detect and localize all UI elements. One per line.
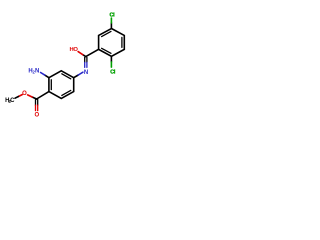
ring inner double bond left edge	[50, 80, 52, 90]
ring inner double bond top-right edge	[62, 74, 71, 79]
svg-text:C: C	[10, 98, 15, 104]
ring inner double bond bottom-left edge	[102, 48, 111, 53]
bond C to dichlorophenyl ring	[86, 49, 99, 56]
ring inner double bond top-left edge	[102, 31, 111, 36]
ring inner double bond bottom-right edge	[62, 90, 71, 95]
C=O double bond (red halves)	[35, 105, 37, 111]
C=O double bond (black halves)	[35, 100, 37, 106]
svg-text:Cl: Cl	[110, 69, 116, 75]
C=N double bond (black halves)	[84, 57, 86, 62]
bond ester O to methyl C (black half)	[15, 97, 18, 99]
bond ring to imine N (black half)	[74, 75, 79, 78]
svg-text:N: N	[35, 68, 39, 74]
dichlorophenyl benzene ring outline	[99, 29, 125, 57]
bond ring to NH2 (blue half)	[41, 73, 45, 76]
bond ring to Cl top (green half)	[110, 18, 112, 23]
svg-text:Cl: Cl	[110, 13, 116, 19]
bond ring to Cl bottom (black half)	[110, 56, 112, 62]
bond ring to ester carbonyl C	[37, 92, 49, 99]
bond C to OH (red half)	[78, 52, 83, 55]
ring inner double bond right edge	[121, 37, 123, 47]
bond carbonyl C to ester O (black half)	[32, 97, 37, 99]
bond carbonyl C to ester O (red half)	[28, 95, 32, 97]
bond ring to imine N (blue half)	[78, 72, 83, 75]
C=N double bond (blue halves)	[84, 62, 86, 67]
svg-text:O: O	[22, 91, 27, 97]
svg-text:O: O	[34, 113, 39, 119]
svg-text:O: O	[73, 47, 78, 53]
bond ring to NH2 (black half)	[45, 75, 49, 78]
svg-text:N: N	[84, 70, 88, 76]
bond ester O to methyl C (red half)	[18, 95, 22, 97]
bond C to OH (black half)	[83, 55, 86, 57]
benzene ring (aminobenzoate) outline	[49, 71, 74, 99]
bond ring to Cl bottom (green half)	[110, 62, 112, 67]
bond ring to Cl top (black half)	[110, 23, 112, 29]
